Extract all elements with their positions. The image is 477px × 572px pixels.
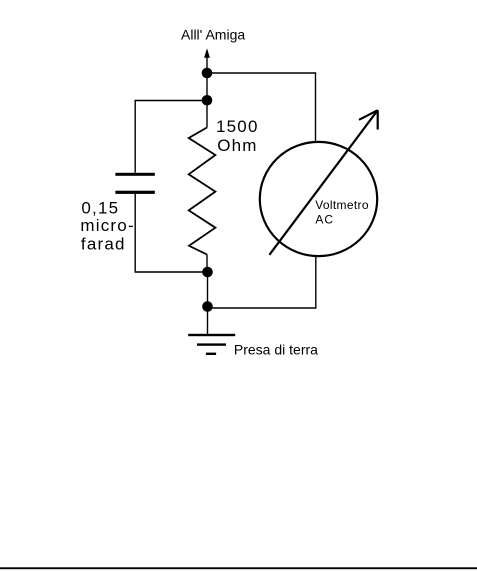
svg-text:0,15: 0,15 bbox=[81, 199, 119, 218]
ground symbol bar 3 bbox=[206, 353, 216, 355]
wire dot1 to dot2 bbox=[206, 73, 208, 100]
node junction dot 3 bbox=[202, 267, 213, 278]
voltmeter needle arrow shaft bbox=[269, 110, 377, 255]
voltmeter arrowhead barb left bbox=[359, 110, 378, 120]
wire dot1 to top-right corner bbox=[207, 73, 316, 143]
svg-text:farad: farad bbox=[81, 235, 126, 254]
wire capacitor bottom down and right to dot3 bbox=[135, 194, 207, 272]
ground stem wire bbox=[207, 307, 209, 335]
ground symbol bar 1 bbox=[188, 334, 235, 336]
svg-text:Alll' Amiga: Alll' Amiga bbox=[181, 27, 245, 43]
capacitor C1 bottom plate bbox=[115, 191, 154, 194]
resistor R1 zigzag bbox=[189, 128, 216, 255]
node junction dot 4 bbox=[202, 301, 213, 312]
wire dot2 left and down to capacitor bbox=[135, 101, 207, 173]
wire dot4 right and up to voltmeter bottom bbox=[208, 256, 316, 309]
svg-text:1500: 1500 bbox=[216, 117, 259, 136]
wire dot3 to dot4 bbox=[207, 272, 209, 307]
ground symbol bar 2 bbox=[197, 343, 226, 345]
node junction dot 1 bbox=[202, 68, 213, 79]
node junction dot 2 bbox=[202, 95, 213, 106]
voltmeter U1 circle bbox=[260, 142, 377, 256]
svg-text:Presa di terra: Presa di terra bbox=[234, 342, 318, 358]
arrow to Amiga (up arrow) bbox=[204, 48, 210, 73]
wire dot2 to resistor top bbox=[206, 100, 208, 127]
svg-text:Voltmetro: Voltmetro bbox=[315, 198, 369, 212]
svg-text:micro-: micro- bbox=[80, 216, 134, 235]
wire resistor bottom to dot3 bbox=[206, 255, 208, 273]
bottom page rule bbox=[0, 567, 477, 569]
svg-text:Ohm: Ohm bbox=[217, 136, 257, 155]
svg-text:AC: AC bbox=[315, 212, 334, 226]
voltmeter arrowhead barb down bbox=[377, 110, 379, 129]
capacitor C1 top plate bbox=[115, 173, 154, 176]
